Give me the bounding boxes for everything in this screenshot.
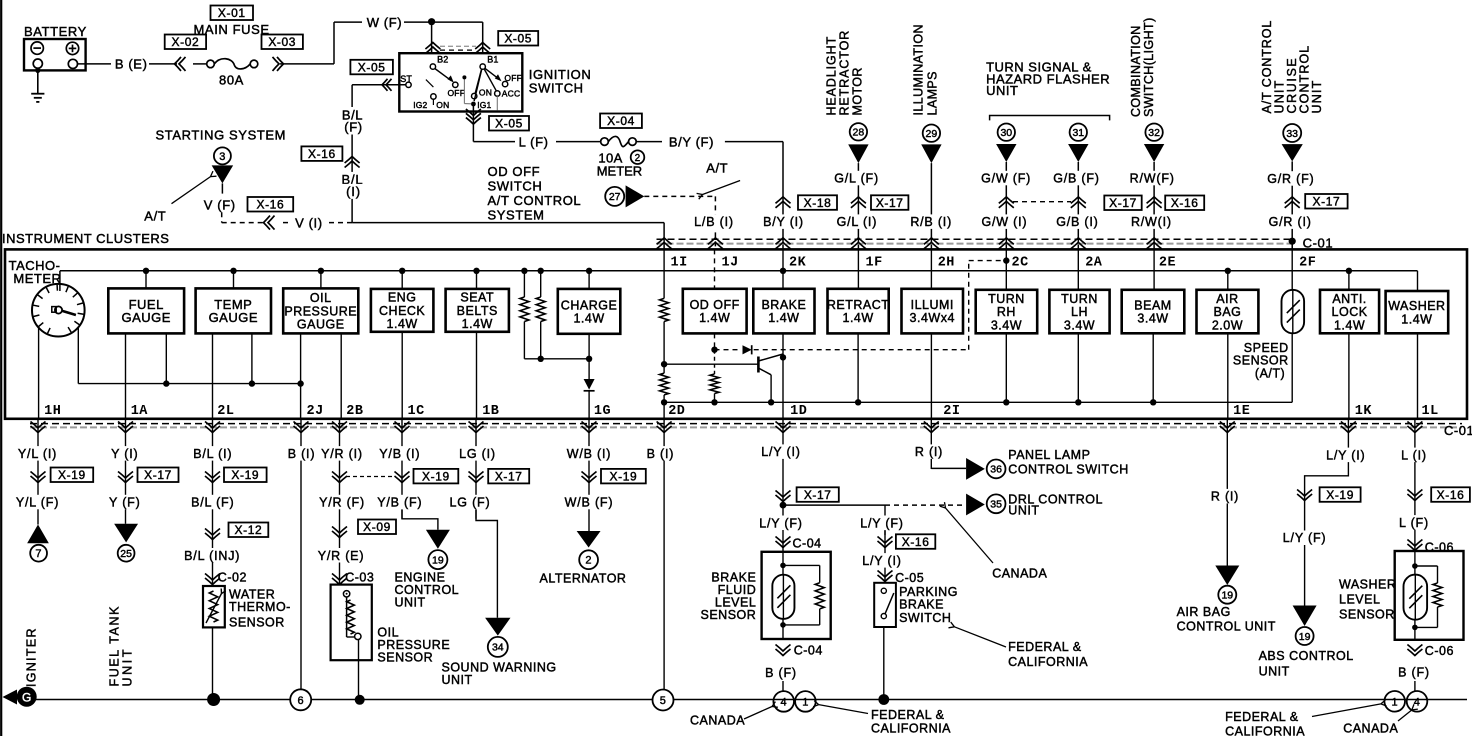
wire L bbox=[1414, 419, 1416, 552]
svg-text:SEAT: SEAT bbox=[460, 291, 494, 305]
svg-text:19: 19 bbox=[1299, 631, 1311, 643]
dashed wire to 2C with diode bbox=[715, 349, 741, 351]
svg-text:1: 1 bbox=[1391, 696, 1397, 708]
lamp SEAT BELTS bbox=[476, 271, 478, 289]
svg-text:1G: 1G bbox=[594, 404, 611, 419]
svg-text:5: 5 bbox=[660, 695, 666, 707]
svg-text:2F: 2F bbox=[1299, 255, 1316, 270]
svg-text:Y/L (I): Y/L (I) bbox=[18, 447, 57, 461]
label X-05 bottom bbox=[489, 116, 529, 131]
svg-text:1B: 1B bbox=[482, 404, 499, 419]
oil pressure sensor bbox=[331, 585, 372, 661]
svg-text:B/L (I): B/L (I) bbox=[193, 447, 232, 461]
connector 4 canada bbox=[773, 691, 794, 712]
connector 1 federal right bbox=[1384, 691, 1405, 712]
connector 19 abs control bbox=[1293, 606, 1317, 627]
svg-text:X-19: X-19 bbox=[1326, 488, 1354, 502]
svg-text:3.4W: 3.4W bbox=[991, 318, 1022, 332]
svg-text:A/T: A/T bbox=[706, 161, 728, 176]
svg-text:CANADA: CANADA bbox=[1343, 721, 1398, 735]
svg-text:X-17: X-17 bbox=[804, 488, 832, 502]
svg-text:FEDERAL &: FEDERAL & bbox=[871, 708, 945, 722]
lamp RETRACT bbox=[857, 249, 859, 288]
svg-text:GAUGE: GAUGE bbox=[121, 310, 170, 325]
svg-text:Y/B (I): Y/B (I) bbox=[379, 447, 420, 461]
svg-text:W/B (F): W/B (F) bbox=[565, 496, 614, 510]
svg-text:Y/B (F): Y/B (F) bbox=[377, 496, 422, 510]
wire Y/L bbox=[37, 419, 39, 525]
svg-text:UNIT: UNIT bbox=[1008, 504, 1039, 518]
connector 27 od off switch bbox=[605, 187, 624, 206]
svg-text:X-19: X-19 bbox=[58, 468, 86, 482]
svg-text:ABS CONTROL: ABS CONTROL bbox=[1259, 649, 1354, 663]
terminal B1 bbox=[480, 64, 485, 69]
svg-text:1: 1 bbox=[802, 696, 808, 708]
ground symbol G igniter bbox=[3, 690, 18, 705]
svg-text:MOTOR: MOTOR bbox=[851, 67, 865, 115]
terminal ACC bbox=[495, 91, 500, 96]
svg-text:32: 32 bbox=[1148, 127, 1160, 139]
svg-text:IG1: IG1 bbox=[477, 100, 491, 110]
wire L/Y abs bbox=[1305, 419, 1349, 606]
terminal ON bbox=[472, 93, 477, 98]
svg-text:OFF: OFF bbox=[448, 88, 466, 98]
svg-text:28: 28 bbox=[853, 127, 865, 139]
svg-text:CANADA: CANADA bbox=[992, 567, 1047, 581]
svg-text:2K: 2K bbox=[789, 255, 807, 270]
svg-text:BATTERY: BATTERY bbox=[24, 24, 87, 39]
junction on ground bbox=[207, 693, 220, 706]
wire LG bbox=[475, 419, 477, 519]
label X-16 bbox=[1431, 487, 1470, 502]
svg-text:BEAM: BEAM bbox=[1134, 298, 1171, 312]
label X-05 bbox=[498, 31, 538, 46]
wire Y bbox=[125, 419, 127, 524]
svg-text:SYSTEM: SYSTEM bbox=[488, 208, 545, 223]
svg-text:3.4Wx4: 3.4Wx4 bbox=[910, 311, 955, 325]
svg-text:X-03: X-03 bbox=[268, 35, 296, 49]
svg-text:CONTROL UNIT: CONTROL UNIT bbox=[1177, 620, 1276, 634]
wire IG1 out bbox=[472, 106, 474, 142]
svg-text:LH: LH bbox=[1071, 305, 1088, 319]
wire label L/B (I) bbox=[688, 214, 740, 229]
svg-text:LEVEL: LEVEL bbox=[1339, 593, 1380, 607]
svg-text:RH: RH bbox=[997, 305, 1016, 319]
label X-16 bbox=[248, 197, 294, 212]
svg-text:C-02: C-02 bbox=[218, 571, 247, 585]
lamp WASHER bbox=[1417, 271, 1419, 291]
blade B1-IG1 bbox=[474, 70, 482, 102]
svg-text:ANTI.: ANTI. bbox=[1332, 292, 1366, 306]
connector X-05 chevrons bbox=[425, 47, 440, 54]
lamp ENG CHECK bbox=[401, 271, 403, 289]
svg-text:B (F): B (F) bbox=[1398, 666, 1430, 680]
svg-text:BRAKE: BRAKE bbox=[899, 598, 944, 612]
switch blade B2-OFF bbox=[435, 69, 452, 81]
svg-text:OIL: OIL bbox=[310, 291, 332, 305]
svg-text:STARTING SYSTEM: STARTING SYSTEM bbox=[156, 128, 287, 143]
connector 25 fuel tank unit bbox=[114, 524, 138, 543]
label X-19 bbox=[1320, 487, 1361, 502]
terminal IG2 bbox=[431, 94, 436, 99]
svg-text:L (I): L (I) bbox=[1401, 448, 1427, 462]
svg-text:31: 31 bbox=[1072, 127, 1084, 139]
terminal OFF left bbox=[453, 82, 458, 87]
svg-text:V (I): V (I) bbox=[295, 215, 323, 230]
svg-text:SENSOR: SENSOR bbox=[1339, 608, 1395, 622]
dashed connector link bbox=[346, 476, 395, 478]
svg-text:ON: ON bbox=[436, 100, 449, 110]
connector X-03 chevron bbox=[273, 57, 280, 71]
svg-text:X-09: X-09 bbox=[363, 520, 391, 534]
svg-text:Y (F): Y (F) bbox=[109, 496, 141, 510]
svg-text:CALIFORNIA: CALIFORNIA bbox=[871, 722, 951, 736]
svg-text:ENG: ENG bbox=[388, 291, 417, 305]
wire B1 feed bbox=[482, 22, 484, 53]
wire W (F) bbox=[333, 22, 335, 64]
bus crossing chevrons bottom bbox=[31, 422, 46, 429]
wire R (I) air bag bbox=[1226, 419, 1228, 566]
wire G/B bbox=[1077, 162, 1079, 249]
label X-18 bbox=[798, 195, 837, 210]
svg-text:L (F): L (F) bbox=[1399, 516, 1429, 530]
label X-03 bbox=[262, 35, 303, 50]
svg-text:Y/R (I): Y/R (I) bbox=[321, 447, 363, 461]
svg-text:L (F): L (F) bbox=[519, 134, 549, 149]
svg-text:W (F): W (F) bbox=[367, 15, 402, 30]
svg-text:INSTRUMENT CLUSTERS: INSTRUMENT CLUSTERS bbox=[2, 231, 169, 246]
svg-text:B (E): B (E) bbox=[115, 56, 148, 71]
wire W/B bbox=[588, 419, 590, 532]
svg-text:1.4W: 1.4W bbox=[768, 311, 799, 325]
svg-text:PARKING: PARKING bbox=[899, 585, 958, 599]
svg-text:2: 2 bbox=[585, 555, 591, 567]
connector C-06 bbox=[1407, 540, 1422, 547]
connector 32 combination switch bbox=[1145, 124, 1162, 141]
svg-text:6: 6 bbox=[297, 695, 303, 707]
svg-text:35: 35 bbox=[990, 499, 1002, 511]
svg-text:THERMO-: THERMO- bbox=[229, 600, 291, 614]
svg-text:B2: B2 bbox=[437, 54, 448, 64]
svg-text:SWITCH: SWITCH bbox=[899, 611, 951, 625]
svg-text:L/Y (I): L/Y (I) bbox=[862, 554, 901, 568]
resistor below OD OFF bbox=[714, 350, 716, 374]
brake fluid level sensor bbox=[762, 552, 831, 639]
svg-text:SENSOR: SENSOR bbox=[229, 615, 285, 629]
svg-text:X-19: X-19 bbox=[610, 469, 638, 483]
svg-text:UNIT: UNIT bbox=[1310, 80, 1324, 114]
lamp CHARGE bbox=[588, 271, 590, 289]
svg-text:ILLUMINATION: ILLUMINATION bbox=[912, 24, 926, 115]
lamp OIL PRESSURE GAUGE bbox=[320, 271, 322, 289]
connector 19 engine control unit bbox=[426, 530, 450, 549]
svg-text:R (I): R (I) bbox=[915, 445, 943, 459]
lamp OD OFF bbox=[714, 249, 716, 288]
connector X-02 chevron bbox=[179, 57, 186, 71]
diode D1 bbox=[584, 379, 595, 390]
svg-text:HEADLIGHT: HEADLIGHT bbox=[825, 36, 839, 116]
svg-text:AIR: AIR bbox=[1216, 292, 1238, 306]
terminal OFF right bbox=[502, 81, 507, 86]
svg-text:C-03: C-03 bbox=[345, 571, 374, 585]
svg-text:C-04: C-04 bbox=[794, 643, 823, 657]
connector 7 out bbox=[27, 525, 49, 544]
connector C-05 bbox=[878, 571, 893, 578]
svg-text:B (F): B (F) bbox=[765, 666, 797, 680]
svg-text:V (F): V (F) bbox=[204, 198, 236, 213]
svg-text:1.4W: 1.4W bbox=[1334, 318, 1365, 332]
svg-text:X-16: X-16 bbox=[1437, 488, 1465, 502]
transistor Q1 bbox=[757, 357, 760, 373]
wire 1I resistor chain bbox=[663, 249, 665, 298]
svg-text:1H: 1H bbox=[44, 404, 61, 419]
svg-text:X-16: X-16 bbox=[1171, 196, 1199, 210]
svg-text:B/Y (I): B/Y (I) bbox=[763, 215, 804, 229]
svg-text:OFF: OFF bbox=[504, 73, 522, 83]
label X-17 bbox=[871, 195, 908, 210]
svg-text:WASHER: WASHER bbox=[1339, 578, 1396, 592]
connector 28 headlight retractor bbox=[850, 123, 867, 140]
main fuse 80A bbox=[207, 60, 215, 68]
washer level sensor bbox=[1395, 551, 1464, 640]
label X-02 bbox=[165, 35, 206, 50]
connector 4 canada right bbox=[1407, 691, 1428, 712]
svg-text:G/R (I): G/R (I) bbox=[1269, 215, 1312, 229]
label X-19 bbox=[51, 468, 94, 483]
svg-text:FEDERAL &: FEDERAL & bbox=[1225, 710, 1299, 724]
svg-text:1A: 1A bbox=[131, 404, 149, 419]
label X-17 bbox=[488, 469, 529, 484]
svg-text:LAMPS: LAMPS bbox=[926, 71, 940, 115]
svg-text:4: 4 bbox=[780, 696, 786, 708]
svg-text:ST: ST bbox=[400, 74, 412, 84]
lamp TURN LH bbox=[1077, 249, 1079, 289]
wire R/W bbox=[1153, 162, 1155, 249]
svg-text:BELTS: BELTS bbox=[457, 304, 498, 318]
svg-text:G/B (I): G/B (I) bbox=[1056, 215, 1098, 229]
svg-text:TURN: TURN bbox=[988, 292, 1025, 306]
svg-text:C-06: C-06 bbox=[1425, 644, 1454, 658]
bus C-01 bottom bbox=[30, 423, 1462, 425]
svg-text:C-05: C-05 bbox=[895, 571, 924, 585]
svg-text:33: 33 bbox=[1286, 128, 1298, 140]
label X-17 bbox=[1104, 196, 1141, 211]
svg-text:L/Y (I): L/Y (I) bbox=[761, 445, 800, 459]
wire Y/B bbox=[401, 419, 403, 519]
connector 6 ground bbox=[290, 689, 311, 710]
junction on ground bbox=[355, 695, 365, 705]
connector 33 a/t cruise bbox=[1283, 124, 1301, 142]
svg-text:UNIT: UNIT bbox=[121, 647, 135, 687]
svg-text:X-02: X-02 bbox=[172, 35, 200, 49]
label X-05 left bbox=[350, 60, 393, 75]
svg-text:X-16: X-16 bbox=[902, 535, 930, 549]
svg-text:L/Y (F): L/Y (F) bbox=[759, 516, 803, 530]
svg-text:BRAKE: BRAKE bbox=[761, 298, 806, 312]
connector C-03 bbox=[332, 574, 347, 581]
svg-text:2B: 2B bbox=[346, 404, 363, 419]
svg-text:2H: 2H bbox=[938, 255, 955, 270]
label X-19 bbox=[601, 469, 646, 484]
svg-text:2D: 2D bbox=[668, 404, 685, 419]
wire G/W bbox=[1005, 162, 1007, 249]
lamp ILLUMI bbox=[930, 249, 932, 288]
wire B (I) to 5 bbox=[663, 419, 665, 691]
svg-text:A/T CONTROL: A/T CONTROL bbox=[488, 193, 582, 208]
svg-text:R/B (I): R/B (I) bbox=[910, 215, 952, 229]
wire V (I) dashed bbox=[222, 222, 264, 224]
svg-text:LG (I): LG (I) bbox=[459, 447, 496, 461]
bracket bbox=[990, 116, 1110, 121]
svg-text:SWITCH: SWITCH bbox=[488, 179, 543, 194]
svg-text:X-04: X-04 bbox=[607, 114, 635, 128]
parking brake switch bbox=[874, 583, 896, 627]
svg-text:1E: 1E bbox=[1233, 404, 1250, 419]
svg-text:LG (F): LG (F) bbox=[450, 496, 491, 510]
svg-text:ILLUMI: ILLUMI bbox=[911, 298, 954, 312]
svg-text:RETRACTOR: RETRACTOR bbox=[838, 30, 852, 116]
svg-text:B/Y (F): B/Y (F) bbox=[669, 134, 714, 149]
svg-text:R/W(F): R/W(F) bbox=[1130, 172, 1175, 186]
terminal B2 bbox=[430, 64, 435, 69]
svg-text:BAG: BAG bbox=[1213, 305, 1241, 319]
svg-text:29: 29 bbox=[926, 128, 938, 140]
svg-text:(I): (I) bbox=[346, 184, 361, 199]
connector C-04 lower bbox=[776, 645, 791, 652]
svg-text:R/W(I): R/W(I) bbox=[1131, 215, 1172, 229]
svg-text:1.4W: 1.4W bbox=[387, 317, 418, 331]
wire B/L (F) bbox=[351, 85, 353, 107]
svg-text:UNIT: UNIT bbox=[395, 595, 426, 609]
svg-text:SWITCH: SWITCH bbox=[529, 81, 584, 96]
connector 1 federal bbox=[795, 691, 816, 712]
svg-text:(A/T): (A/T) bbox=[1255, 367, 1285, 381]
wire Y/R bbox=[339, 419, 341, 585]
svg-text:27: 27 bbox=[609, 191, 621, 203]
connector 29 illumination lamps bbox=[923, 125, 940, 142]
cluster common return line bbox=[664, 401, 1292, 403]
svg-text:G/B (F): G/B (F) bbox=[1053, 172, 1100, 186]
svg-text:UNIT: UNIT bbox=[442, 673, 473, 687]
label X-16 bbox=[1165, 196, 1204, 211]
svg-text:2: 2 bbox=[635, 153, 641, 164]
svg-text:CANADA: CANADA bbox=[690, 713, 745, 727]
wire B (I) to 6 bbox=[300, 419, 302, 690]
svg-text:FUEL TANK: FUEL TANK bbox=[108, 605, 122, 687]
svg-text:LOCK: LOCK bbox=[1332, 305, 1368, 319]
terminal ST bbox=[406, 82, 411, 87]
svg-text:SENSOR: SENSOR bbox=[377, 651, 433, 665]
wire L (F) bbox=[473, 141, 515, 143]
svg-text:X-01: X-01 bbox=[218, 6, 246, 20]
svg-text:W/B (I): W/B (I) bbox=[567, 447, 611, 461]
svg-text:TURN: TURN bbox=[1061, 292, 1098, 306]
svg-text:SENSOR: SENSOR bbox=[701, 608, 757, 622]
svg-text:36: 36 bbox=[990, 464, 1002, 476]
svg-text:2.0W: 2.0W bbox=[1212, 318, 1243, 332]
svg-text:IG2: IG2 bbox=[413, 100, 427, 110]
bus C-01 top bbox=[657, 238, 1293, 240]
svg-text:UNIT: UNIT bbox=[1259, 665, 1290, 679]
connector 2 alternator bbox=[577, 531, 601, 548]
svg-text:X-12: X-12 bbox=[235, 523, 263, 537]
svg-text:L/Y (F): L/Y (F) bbox=[1283, 531, 1327, 545]
lamp AIR BAG bbox=[1227, 271, 1229, 290]
wire R (I) panel lamp bbox=[930, 419, 932, 470]
svg-text:X-18: X-18 bbox=[804, 196, 832, 210]
lamp BEAM bbox=[1153, 249, 1155, 289]
svg-text:19: 19 bbox=[432, 554, 444, 566]
svg-text:2J: 2J bbox=[307, 404, 324, 419]
svg-text:1J: 1J bbox=[722, 255, 739, 270]
svg-text:X-05: X-05 bbox=[358, 60, 386, 74]
svg-text:Y (I): Y (I) bbox=[111, 447, 138, 461]
svg-text:METER: METER bbox=[597, 164, 643, 179]
svg-text:B (I): B (I) bbox=[288, 447, 316, 461]
svg-text:Y/L (F): Y/L (F) bbox=[16, 496, 59, 510]
svg-text:30: 30 bbox=[1000, 127, 1012, 139]
svg-text:G/R (F): G/R (F) bbox=[1267, 172, 1314, 186]
svg-text:B/L (F): B/L (F) bbox=[191, 496, 234, 510]
switch blade B1-OFF bbox=[485, 68, 499, 78]
ground bbox=[37, 68, 39, 94]
resistor pair bbox=[523, 271, 525, 297]
svg-text:3.4W: 3.4W bbox=[1137, 312, 1168, 326]
svg-text:WASHER: WASHER bbox=[1388, 299, 1445, 313]
svg-text:X-16: X-16 bbox=[308, 147, 336, 161]
wire L/Y to parking brake bbox=[884, 505, 886, 535]
connector X-16 chevron bbox=[345, 161, 360, 168]
svg-text:G/L (F): G/L (F) bbox=[834, 172, 879, 186]
svg-text:2L: 2L bbox=[217, 404, 234, 419]
connector C-04 bbox=[776, 537, 791, 544]
connector C-02 bbox=[205, 574, 220, 581]
svg-text:CALIFORNIA: CALIFORNIA bbox=[1008, 655, 1088, 669]
svg-text:1.4W: 1.4W bbox=[1401, 312, 1432, 326]
svg-text:C-04: C-04 bbox=[793, 536, 822, 550]
connector X-09 bbox=[332, 527, 347, 534]
svg-text:Y/R (F): Y/R (F) bbox=[319, 496, 365, 510]
connector C-06 lower bbox=[1407, 645, 1422, 652]
linkage lines bbox=[463, 77, 465, 103]
svg-text:CHECK: CHECK bbox=[379, 304, 425, 318]
connector 30 turn flasher bbox=[998, 124, 1015, 141]
svg-text:1C: 1C bbox=[408, 404, 425, 419]
wire ST bbox=[352, 84, 406, 86]
label X-17 bbox=[138, 468, 179, 483]
lamp TEMP GAUGE bbox=[233, 271, 235, 289]
wire B/Y (F) bbox=[636, 141, 662, 143]
lamp FUEL GAUGE bbox=[145, 271, 147, 289]
connector 31 turn flasher bbox=[1070, 124, 1087, 141]
svg-text:ALTERNATOR: ALTERNATOR bbox=[540, 571, 627, 585]
svg-text:1I: 1I bbox=[671, 255, 688, 270]
lamp BRAKE bbox=[782, 249, 784, 288]
svg-text:X-17: X-17 bbox=[495, 469, 523, 483]
svg-text:PRESSURE: PRESSURE bbox=[284, 304, 357, 318]
label X-17 bbox=[797, 487, 839, 502]
ignition switch box bbox=[399, 53, 522, 111]
svg-text:1.4W: 1.4W bbox=[699, 311, 730, 325]
svg-text:1K: 1K bbox=[1355, 404, 1373, 419]
page left border bbox=[0, 0, 2, 736]
wire B/L bbox=[212, 419, 214, 587]
svg-text:G/W (I): G/W (I) bbox=[981, 215, 1027, 229]
svg-text:X-05: X-05 bbox=[495, 117, 523, 131]
wire B/L (I) bbox=[340, 172, 366, 187]
svg-text:1F: 1F bbox=[866, 255, 883, 270]
svg-text:B (I): B (I) bbox=[647, 447, 675, 461]
